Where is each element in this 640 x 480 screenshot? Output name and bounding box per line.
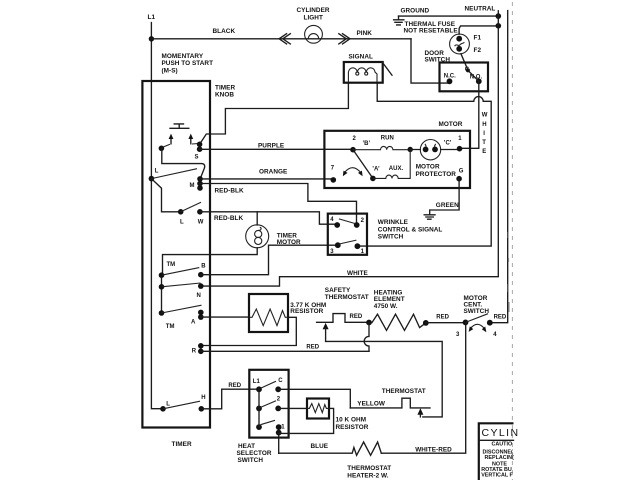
node wrinkle 4 bbox=[334, 222, 340, 228]
node B terminal bbox=[198, 272, 204, 278]
node R terminal bbox=[198, 343, 204, 349]
wrinkle arm 3-1 bbox=[339, 240, 357, 244]
svg-text:N.O.: N.O. bbox=[470, 75, 483, 81]
svg-text:’C’: ’C’ bbox=[444, 140, 452, 146]
timer arm TM to N bbox=[162, 283, 201, 287]
node N terminal bbox=[198, 283, 204, 289]
node heat selector bottom bbox=[256, 424, 262, 430]
svg-text:B: B bbox=[201, 264, 206, 270]
motor run winding bbox=[353, 146, 410, 149]
svg-text:GREEN: GREEN bbox=[436, 202, 459, 209]
wire timer motor bottom to TM rail bbox=[163, 248, 258, 275]
wire ORANGE (M to motor 7) bbox=[200, 178, 333, 180]
wire RED-BLK W to timer motor and wrinkle 4 bbox=[200, 212, 337, 224]
svg-text:F1: F1 bbox=[474, 34, 482, 41]
svg-text:HEATER-2 W.: HEATER-2 W. bbox=[347, 472, 388, 479]
svg-text:L1: L1 bbox=[253, 379, 261, 385]
svg-text:RED: RED bbox=[228, 383, 241, 389]
thermostat arrow bbox=[417, 408, 423, 414]
svg-text:S: S bbox=[195, 155, 199, 161]
node wrinkle 1 bbox=[355, 243, 361, 249]
wire neutral right bus down to white run bbox=[201, 11, 498, 286]
svg-text:THERMOSTAT: THERMOSTAT bbox=[382, 388, 426, 395]
svg-text:W: W bbox=[198, 219, 204, 225]
node motor 7 bbox=[331, 177, 337, 183]
node L/W contact L bbox=[178, 209, 184, 215]
wire L to L/W contact bbox=[151, 179, 180, 212]
svg-text:TM: TM bbox=[166, 324, 175, 330]
timer arm TM to A bbox=[162, 305, 202, 313]
timer arm L to H bbox=[163, 401, 200, 409]
wire push contact to M rail bbox=[162, 149, 205, 178]
node W terminal bbox=[197, 209, 203, 215]
wire C to thermostat bbox=[278, 389, 350, 408]
wire B to wrinkle 3 bbox=[201, 245, 338, 275]
node motor B bbox=[350, 147, 356, 153]
svg-text:A: A bbox=[191, 320, 196, 326]
ground (motor) bbox=[424, 215, 435, 219]
motor box bbox=[324, 131, 470, 188]
node motor cent. switch 3 bbox=[463, 320, 469, 326]
svg-text:C: C bbox=[465, 67, 470, 73]
svg-text:AUX.: AUX. bbox=[389, 166, 404, 172]
door switch arm C to N.O. bbox=[466, 68, 479, 81]
svg-text:RED-BLK: RED-BLK bbox=[214, 215, 243, 222]
motor aux winding bbox=[373, 150, 410, 179]
svg-text:WRINKLE: WRINKLE bbox=[378, 219, 409, 226]
thermal fuse F1-F2 bbox=[450, 34, 470, 54]
svg-text:(M-S): (M-S) bbox=[162, 67, 178, 74]
thermostat bbox=[350, 398, 430, 408]
motor wiper arc arrow bbox=[343, 168, 363, 177]
wire RED H to heat selector L1 bbox=[201, 389, 259, 409]
node heating junction bbox=[366, 320, 372, 326]
svg-text:THERMOSTAT: THERMOSTAT bbox=[347, 465, 391, 472]
svg-text:RESISTOR: RESISTOR bbox=[290, 308, 323, 315]
heating element 4750 W bbox=[372, 314, 426, 330]
svg-text:MOTOR: MOTOR bbox=[439, 121, 463, 128]
svg-text:RED: RED bbox=[494, 314, 507, 320]
connector chevrons left bbox=[279, 34, 290, 44]
svg-text:MOTOR: MOTOR bbox=[416, 164, 440, 171]
wire L1 vertical bus bbox=[151, 23, 163, 409]
wire PURPLE (S to motor B) bbox=[200, 148, 353, 150]
push-button actuator bbox=[170, 124, 189, 128]
svg-text:BLACK: BLACK bbox=[213, 28, 236, 35]
node A terminal bbox=[198, 310, 204, 316]
svg-text:E: E bbox=[482, 149, 486, 155]
svg-text:M: M bbox=[190, 183, 195, 189]
safety thermostat arrow bbox=[323, 323, 329, 342]
svg-text:’A’: ’A’ bbox=[372, 167, 380, 173]
timer arm TM to B bbox=[162, 268, 200, 276]
wire NEUTRAL bbox=[399, 15, 499, 17]
push-button arrow left bbox=[170, 138, 172, 144]
push-button arrow right bbox=[190, 138, 192, 144]
wire fuse F2 to door switch C bbox=[461, 54, 468, 70]
wire TM rail bbox=[161, 275, 163, 313]
svg-text:TM: TM bbox=[167, 262, 176, 268]
safety thermostat bbox=[317, 314, 369, 323]
wire right edge line to motor cent. switch 4 bbox=[490, 11, 508, 323]
heat selector arm L1-C bbox=[261, 381, 277, 388]
node TM 2 bbox=[159, 284, 165, 290]
connector chevrons right bbox=[339, 34, 350, 44]
wire R to heating junction drop bbox=[201, 350, 369, 352]
svg-text:LIGHT: LIGHT bbox=[304, 14, 323, 21]
svg-text:BLUE: BLUE bbox=[311, 443, 329, 450]
timer arm L/W bbox=[181, 202, 201, 212]
node L bottom contact bbox=[160, 406, 166, 412]
motor cent. switch arc arrow bbox=[469, 324, 487, 332]
svg-text:C: C bbox=[278, 378, 283, 384]
node TM 1 bbox=[159, 272, 165, 278]
svg-text:PROTECTOR: PROTECTOR bbox=[416, 171, 457, 178]
svg-text:WHITE: WHITE bbox=[347, 270, 369, 277]
node heating element right bbox=[423, 320, 429, 326]
svg-text:F2: F2 bbox=[474, 47, 482, 54]
svg-text:REPLACIN(: REPLACIN( bbox=[485, 455, 515, 461]
wire signal right lead to wrinkle switch 1 (hump over white) bbox=[357, 83, 491, 246]
wrinkle control switch box bbox=[328, 214, 367, 255]
timer arm L to S region bbox=[151, 169, 197, 179]
door switch box bbox=[440, 63, 489, 92]
svg-text:SWITCH: SWITCH bbox=[378, 234, 404, 241]
node TM 3 bbox=[159, 310, 165, 316]
svg-text:R: R bbox=[192, 348, 197, 354]
wire thermal fuse to neutral bus bbox=[459, 26, 498, 34]
svg-text:GROUND: GROUND bbox=[401, 8, 430, 15]
wire BLUE riser to heat selector 1 bbox=[278, 427, 280, 453]
svg-text:NOT RESETABLE: NOT RESETABLE bbox=[404, 28, 459, 35]
svg-text:W: W bbox=[482, 113, 488, 119]
svg-text:RED: RED bbox=[306, 345, 319, 351]
wire WHITE-RED: switch 3 down to heater bbox=[381, 323, 465, 454]
svg-text:RED: RED bbox=[436, 314, 449, 320]
svg-text:H: H bbox=[201, 395, 205, 401]
door switch contact N.C. bbox=[447, 78, 453, 84]
heat selector switch box bbox=[249, 370, 288, 438]
node neutral junction 1 bbox=[496, 13, 502, 19]
wire A to 3.77K resistor bbox=[201, 316, 249, 318]
wire heat selector left rail bbox=[258, 389, 260, 427]
wire PINK bbox=[411, 39, 450, 83]
heat selector arm bot-1 bbox=[261, 420, 276, 424]
svg-text:N.C.: N.C. bbox=[444, 74, 456, 80]
svg-text:RED: RED bbox=[350, 314, 363, 320]
svg-text:4750 W.: 4750 W. bbox=[374, 303, 398, 310]
ground (top) bbox=[394, 16, 404, 25]
svg-text:G: G bbox=[459, 168, 464, 174]
svg-text:N: N bbox=[197, 293, 201, 299]
wire push contact links bbox=[163, 144, 199, 148]
node push contact left bbox=[159, 146, 165, 152]
svg-text:’B’: ’B’ bbox=[363, 141, 371, 147]
wire 2 to 10K resistor bbox=[278, 407, 307, 409]
node M terminal bbox=[197, 176, 203, 182]
wire white: N.O. down to motor 1 bbox=[460, 81, 479, 148]
svg-text:RESISTOR: RESISTOR bbox=[336, 424, 369, 431]
svg-text:VERTICAL F: VERTICAL F bbox=[481, 473, 513, 479]
svg-text:SIGNAL: SIGNAL bbox=[349, 54, 373, 61]
node heat selector L1 bbox=[256, 386, 262, 392]
node neutral junction 2 bbox=[496, 23, 502, 29]
svg-text:L1: L1 bbox=[148, 14, 156, 21]
node L junction on L1 bus bbox=[149, 176, 155, 182]
svg-text:CYLINDER: CYLINDER bbox=[297, 7, 330, 14]
svg-text:WHITE-RED: WHITE-RED bbox=[415, 447, 452, 454]
svg-text:PINK: PINK bbox=[357, 30, 373, 37]
svg-text:YELLOW: YELLOW bbox=[357, 401, 386, 408]
wire signal left lead to timer S bbox=[200, 83, 349, 145]
svg-text:RUN: RUN bbox=[381, 135, 394, 141]
scan edge dashed line bbox=[511, 2, 513, 480]
node motor internal junction bbox=[408, 147, 413, 152]
heat selector arm mid-2 bbox=[261, 401, 277, 408]
svg-text:PURPLE: PURPLE bbox=[258, 143, 285, 150]
svg-text:SWITCH: SWITCH bbox=[425, 56, 451, 63]
node motor G bbox=[456, 176, 462, 182]
svg-text:MOMENTARY: MOMENTARY bbox=[162, 53, 204, 60]
node heat selector 1 bbox=[276, 424, 282, 430]
svg-text:L: L bbox=[166, 401, 170, 407]
svg-text:PUSH TO START: PUSH TO START bbox=[162, 60, 214, 67]
node motor cent. switch 4 bbox=[487, 320, 493, 326]
svg-text:NEUTRAL: NEUTRAL bbox=[465, 6, 496, 13]
node junction L1/BLACK bbox=[149, 36, 154, 41]
node wrinkle 2 bbox=[354, 222, 360, 228]
svg-text:H: H bbox=[482, 122, 486, 128]
cylinder light lamp bbox=[305, 25, 323, 43]
wire G to ground GREEN bbox=[430, 179, 459, 215]
svg-text:L: L bbox=[180, 220, 184, 226]
node wrinkle 3 bbox=[335, 242, 341, 248]
10 K OHM resistor bbox=[307, 399, 329, 419]
svg-text:SWITCH: SWITCH bbox=[464, 308, 490, 315]
svg-text:L: L bbox=[155, 169, 159, 175]
motor protector bbox=[410, 140, 459, 160]
svg-text:10 K OHM: 10 K OHM bbox=[336, 416, 367, 423]
node heat selector C bbox=[275, 386, 281, 392]
wire RED to motor cent. switch 3 bbox=[426, 322, 466, 324]
svg-text:CONTROL & SIGNAL: CONTROL & SIGNAL bbox=[378, 226, 443, 233]
wire 10K return to heat selector 1 bbox=[279, 408, 334, 433]
node heat selector 2 bbox=[275, 406, 281, 412]
node H terminal bbox=[199, 406, 205, 412]
node motor 1 bbox=[457, 146, 463, 152]
svg-text:T: T bbox=[482, 140, 486, 146]
wire 3.77K resistor return to R bbox=[201, 317, 296, 345]
wire RED to thermostat bbox=[326, 341, 443, 417]
svg-text:TIMER: TIMER bbox=[172, 441, 192, 448]
timer box bbox=[142, 81, 210, 428]
svg-text:MOTOR: MOTOR bbox=[277, 239, 301, 246]
wire branch to timer motor top bbox=[256, 212, 258, 225]
node motor A bbox=[370, 176, 376, 182]
signal buzzer bbox=[344, 62, 392, 83]
wire junction drop with hop bbox=[364, 323, 369, 352]
svg-text:KNOB: KNOB bbox=[215, 91, 234, 98]
wire BLACK bbox=[151, 38, 411, 40]
3.77 K OHM resistor bbox=[249, 294, 288, 332]
wire RED-BLK (M to wrinkle 2) bbox=[200, 184, 357, 226]
legend box CYLIN bbox=[479, 423, 514, 480]
svg-text:THERMOSTAT: THERMOSTAT bbox=[325, 294, 369, 301]
thermostat heater 2W zigzag bbox=[279, 442, 382, 455]
node heat selector mid bbox=[256, 406, 262, 412]
svg-text:TIMER: TIMER bbox=[215, 84, 235, 91]
svg-text:SWITCH: SWITCH bbox=[238, 457, 264, 464]
motor arm B to A bbox=[353, 150, 373, 179]
svg-text:CYLIN: CYLIN bbox=[482, 427, 520, 439]
svg-text:CAUTIO: CAUTIO bbox=[492, 441, 513, 447]
wrinkle arm 4-2 bbox=[339, 219, 356, 224]
svg-text:ORANGE: ORANGE bbox=[259, 169, 288, 176]
timer motor bbox=[246, 225, 269, 248]
svg-text:RED-BLK: RED-BLK bbox=[215, 187, 244, 194]
motor cent. switch arm bbox=[466, 314, 489, 323]
node S terminal bbox=[197, 142, 203, 148]
door switch contact N.O. bbox=[476, 78, 482, 84]
